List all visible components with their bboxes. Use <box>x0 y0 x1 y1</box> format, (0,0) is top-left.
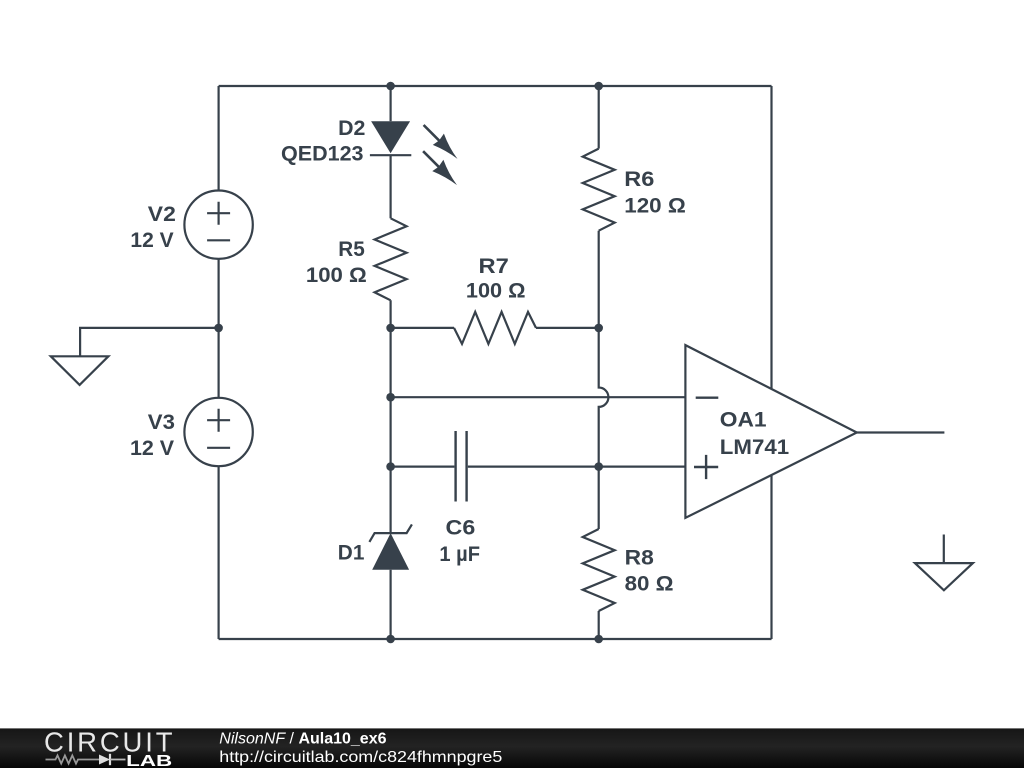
svg-text:V2: V2 <box>148 203 176 226</box>
svg-text:R6: R6 <box>624 168 654 191</box>
svg-text:1 µF: 1 µF <box>439 543 480 566</box>
svg-text:R7: R7 <box>479 255 509 278</box>
svg-text:12 V: 12 V <box>130 437 174 460</box>
svg-text:C6: C6 <box>446 517 476 540</box>
svg-text:V3: V3 <box>148 411 175 434</box>
svg-text:100 Ω: 100 Ω <box>306 264 367 287</box>
svg-text:120 Ω: 120 Ω <box>624 195 686 218</box>
svg-text:OA1: OA1 <box>720 409 767 432</box>
svg-text:100 Ω: 100 Ω <box>466 280 526 303</box>
svg-text:D2: D2 <box>338 117 365 140</box>
svg-text:LM741: LM741 <box>720 436 790 459</box>
svg-text:QED123: QED123 <box>281 143 364 166</box>
svg-text:12 V: 12 V <box>130 229 173 252</box>
svg-text:R8: R8 <box>625 547 655 570</box>
svg-text:NilsonNF / Aula10_ex6: NilsonNF / Aula10_ex6 <box>219 730 386 747</box>
svg-text:LAB: LAB <box>126 753 172 768</box>
svg-text:80 Ω: 80 Ω <box>625 573 674 596</box>
svg-text:R5: R5 <box>338 238 365 261</box>
svg-text:http://circuitlab.com/c824fhmn: http://circuitlab.com/c824fhmnpgre5 <box>219 749 502 766</box>
svg-text:D1: D1 <box>338 542 365 565</box>
